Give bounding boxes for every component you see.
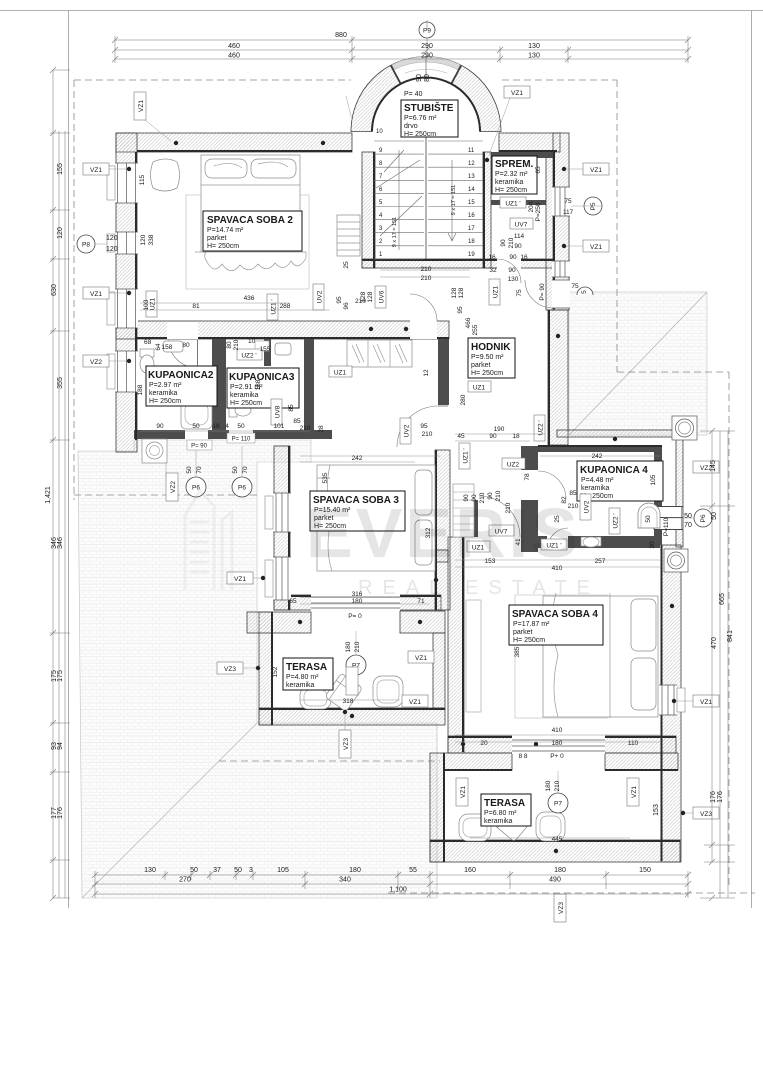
svg-text:9 x 17 = 151: 9 x 17 = 151 [451,185,457,215]
wall left (soba2 + kupaonica2) [116,133,137,452]
node P9 [419,22,435,38]
room label spavaca soba 3 [310,491,405,531]
svg-text:UZ1 ': UZ1 ' [271,299,278,314]
svg-text:P=17.87 m²: P=17.87 m² [513,621,550,628]
wall terasa1 top-left [247,612,311,633]
svg-text:VZ1: VZ1 [409,699,421,706]
svg-text:103: 103 [143,299,150,310]
roof hatch square top-right [569,292,707,435]
inner face corridor wall [137,337,449,339]
door bathroom bottom P=90 [185,429,208,440]
svg-text:VZ2: VZ2 [90,359,102,366]
svg-text:120: 120 [106,246,118,253]
k2 wc [140,349,154,357]
svg-text:HODNIK: HODNIK [471,342,511,353]
svg-text:TERASA: TERASA [286,662,327,673]
wall sprem bottom [491,200,546,205]
svg-text:UZ1: UZ1 [473,385,486,392]
column drain ne [672,416,697,440]
svg-text:UV2: UV2 [317,290,324,303]
svg-text:P= 110: P= 110 [232,437,251,443]
carpet soba4 [515,595,608,718]
inner face soba4 bottom [448,736,676,738]
dashed roof outline [74,80,755,893]
svg-text:P=250: P=250 [535,202,542,221]
inner face terasa walls [259,612,680,862]
wall stair bottom [362,259,553,268]
svg-text:110: 110 [628,740,639,747]
svg-text:1,421: 1,421 [45,486,52,504]
svg-text:P7: P7 [554,801,562,808]
svg-text:80: 80 [226,341,233,349]
svg-text:153: 153 [653,804,660,816]
wall closet hodnik-south [466,500,478,537]
svg-text:parket: parket [513,629,533,636]
inner face k4 top [538,445,662,447]
svg-text:8 8: 8 8 [518,753,527,760]
window k4 right P110 [654,506,683,530]
stair walk line arrow [399,150,456,250]
inner face stair walls [362,152,553,268]
terasa2 lounger [494,803,533,842]
svg-text:150: 150 [639,867,651,874]
svg-text:H= 250cm: H= 250cm [207,243,239,250]
parapet wall ne right [676,437,683,547]
svg-text:45: 45 [457,433,465,440]
inner face soba3 bottom [274,595,441,597]
page left border line [68,11,70,909]
svg-text:490: 490 [549,877,561,884]
svg-text:385: 385 [514,646,521,657]
svg-text:P6: P6 [238,485,246,492]
arch window gaps [391,57,461,84]
svg-text:VZ1: VZ1 [234,576,246,583]
svg-text:460: 460 [228,43,240,50]
svg-text:880: 880 [335,32,347,39]
svg-text:152: 152 [272,666,279,677]
svg-text:VZ1: VZ1 [90,167,102,174]
svg-text:20: 20 [480,740,488,747]
svg-text:210: 210 [421,266,432,273]
svg-text:P=2.97 m²: P=2.97 m² [149,382,182,389]
svg-text:SPAVACA SOBA 2: SPAVACA SOBA 2 [207,215,293,226]
bottom dimension lines [95,875,688,894]
svg-text:keramika: keramika [581,485,610,492]
svg-text:VZ1: VZ1 [631,786,638,798]
door hodnik-soba4 UV7 [479,496,521,538]
svg-text:UZ2 ': UZ2 ' [538,420,545,435]
watermark [185,491,600,599]
svg-text:P=2.32 m²: P=2.32 m² [495,171,528,178]
svg-text:128: 128 [360,291,367,302]
svg-text:90: 90 [156,423,164,430]
terasa1 lounger [325,673,363,712]
nightstand soba2 [151,159,180,191]
wall soba3 bottom [274,595,441,610]
k4 washbasin oval [583,537,599,547]
door uv2 corridor [410,294,437,339]
svg-text:630: 630 [51,284,58,296]
window east w6 P5 [552,187,570,216]
svg-text:190: 190 [494,426,505,433]
svg-text:32: 32 [489,267,497,274]
svg-text:37: 37 [213,867,221,874]
wall soba4 bottom [448,736,676,753]
svg-text:90: 90 [416,74,423,82]
terasa1 chair 1 [300,687,331,709]
window soba3 left w8 [265,493,291,532]
svg-text:UZ1: UZ1 [334,370,347,377]
leader dots [127,141,685,853]
inner face soba2 top [137,150,352,152]
svg-text:REAL ESTATE: REAL ESTATE [358,577,600,599]
k4 sink [581,537,601,546]
wall soba2 top [116,133,352,152]
svg-text:H= 250cm: H= 250cm [471,370,503,377]
svg-text:115: 115 [139,174,146,185]
svg-text:410: 410 [552,727,563,734]
node P6 a [186,477,206,497]
window left w1 VZ1 [107,163,138,203]
svg-text:P= 90: P= 90 [191,444,208,450]
wall terasa2 bottom [430,840,680,862]
svg-text:128: 128 [451,287,458,298]
svg-text:4: 4 [225,423,229,430]
inner face soba4 left [462,537,464,752]
svg-text:50: 50 [684,513,692,520]
svg-text:50: 50 [237,423,245,430]
svg-text:85: 85 [293,418,301,425]
svg-text:70: 70 [684,522,692,529]
svg-text:71: 71 [417,598,425,605]
svg-text:64: 64 [155,343,162,351]
svg-text:UV8: UV8 [275,405,282,418]
svg-text:318: 318 [343,698,354,705]
svg-text:130: 130 [144,867,156,874]
door k4 top UZ2 [520,470,566,500]
svg-text:H= 250cm: H= 250cm [404,131,436,138]
svg-text:210: 210 [354,641,361,652]
stair break lines [376,150,422,236]
svg-text:P= 40: P= 40 [404,91,423,98]
node P8 [77,235,95,253]
svg-text:28: 28 [318,425,325,433]
tick marks top [112,37,691,62]
door sprem UZ1' [497,258,521,283]
svg-text:338: 338 [148,234,155,245]
svg-text:158: 158 [162,344,173,351]
svg-text:210: 210 [421,275,432,282]
top dimension lines [115,40,688,59]
svg-text:VZ1: VZ1 [700,699,712,706]
svg-text:180: 180 [554,867,566,874]
svg-text:keramika: keramika [495,179,524,186]
svg-text:466: 466 [465,317,472,328]
room label hodnik [468,338,515,378]
svg-text:P+ 0: P+ 0 [550,753,564,760]
wall k4 bottom [531,536,660,548]
svg-text:242: 242 [352,455,363,462]
node P7 a [346,655,366,675]
svg-text:H= 250cm: H= 250cm [495,187,527,194]
svg-text:10: 10 [376,129,383,135]
svg-text:94: 94 [57,742,64,750]
svg-text:280: 280 [460,394,467,405]
leader lines [95,96,711,900]
wall terasa1 top-right [400,611,445,633]
svg-text:101: 101 [274,423,285,430]
svg-text:90: 90 [500,239,507,247]
inner face soba3 right [435,450,437,610]
stair flight treads right [428,141,483,246]
svg-text:UZ2: UZ2 [507,462,520,469]
room label terasa 2 [481,794,531,826]
svg-text:18: 18 [468,239,475,245]
terasa1 chair 2 [373,676,403,707]
svg-text:UV2: UV2 [584,500,591,513]
column drain k4 corner [664,549,688,572]
roof diagonal valley line [82,723,257,898]
wall k3 corner stub [304,430,332,439]
svg-text:P8: P8 [82,242,90,249]
k4 wc [638,503,660,528]
svg-text:180: 180 [349,867,361,874]
svg-text:H= 250cm: H= 250cm [149,398,181,405]
svg-text:50: 50 [645,515,652,523]
svg-text:parket: parket [471,362,491,369]
svg-text:65: 65 [535,166,542,174]
svg-text:128: 128 [367,291,374,302]
wall terasa2 left [430,753,444,862]
wall terasa1 left [259,612,272,725]
svg-text:P=4.48 m²: P=4.48 m² [581,477,614,484]
svg-text:P=4.80 m²: P=4.80 m² [286,674,319,681]
svg-text:445: 445 [552,836,563,843]
carpet soba2 [186,195,309,289]
svg-text:VZ1: VZ1 [138,100,145,112]
k2 sink [163,341,183,352]
wall sprem top [491,152,553,158]
svg-text:P6: P6 [700,514,707,522]
room label kupaonica 4 [577,461,663,501]
svg-text:9 x 17 = 151: 9 x 17 = 151 [392,217,398,247]
node P5 [584,197,602,215]
svg-text:78: 78 [524,473,531,481]
k3 sink [275,343,291,355]
svg-text:EVERIS: EVERIS [306,494,581,572]
svg-text:SPREM.: SPREM. [495,159,534,170]
room label sprem [492,156,537,194]
svg-text:436: 436 [244,295,255,302]
svg-text:P=6.80 m²: P=6.80 m² [484,810,517,817]
svg-text:470: 470 [711,637,718,649]
svg-text:UZ2 ': UZ2 ' [241,353,256,360]
window left w3 VZ1 [107,289,138,328]
wall k4 top [538,446,662,452]
svg-text:176: 176 [717,791,724,803]
inner face east hodnik [548,310,550,445]
svg-text:80: 80 [424,74,431,82]
svg-text:5: 5 [581,290,588,294]
window east w7 [552,261,570,277]
svg-text:290: 290 [421,43,433,50]
sliding door soba4-terasa2 [512,735,605,754]
svg-text:parket: parket [207,235,227,242]
svg-text:VZ3: VZ3 [700,811,712,818]
boxed tags [83,86,719,922]
svg-text:18: 18 [512,433,520,440]
wall stub terasa1-soba4 [430,550,448,562]
roof hatch area bottom-left [78,440,437,898]
svg-text:75: 75 [516,289,523,297]
roof diagonal line [569,292,707,435]
svg-text:H= 250cm: H= 250cm [513,637,545,644]
door k4 bottom UZ1' [547,528,568,549]
svg-text:50: 50 [234,867,242,874]
washing machine [142,439,167,463]
svg-text:346: 346 [57,537,64,549]
stair flight treads left [374,141,424,259]
svg-text:204: 204 [528,201,535,212]
svg-text:180: 180 [552,740,563,747]
svg-text:75: 75 [571,283,579,290]
svg-text:90: 90 [514,243,522,250]
svg-text:VZ3: VZ3 [343,738,350,750]
wall partition k2/k3 [212,339,226,436]
inner face top right [499,150,557,152]
svg-text:180: 180 [352,598,363,605]
wall stair left [362,152,375,268]
svg-text:95: 95 [457,306,464,314]
svg-text:P=14.74 m²: P=14.74 m² [207,227,244,234]
svg-text:UZ1: UZ1 [150,297,157,310]
svg-text:16: 16 [468,213,475,219]
svg-text:288: 288 [280,303,291,310]
bed soba4 [543,596,658,717]
window soba3 left w9 [265,557,291,600]
svg-text:255: 255 [472,324,479,335]
blanket edge soba2 [195,252,306,271]
bed soba2 [201,155,300,252]
svg-text:14: 14 [468,187,475,193]
inner face soba3 left [288,446,290,610]
wall k4 right [654,446,662,545]
parapet wall ne top [557,430,683,437]
svg-text:50: 50 [186,466,193,474]
wall east upper [553,133,569,310]
svg-text:UZ1 ': UZ1 ' [463,448,470,463]
svg-text:85: 85 [288,404,295,412]
svg-text:P= 0: P= 0 [348,613,362,620]
svg-text:175: 175 [57,670,64,682]
svg-text:UV6: UV6 [379,290,386,303]
svg-text:145: 145 [710,460,717,472]
svg-text:16: 16 [520,254,528,261]
room label kupaonica3 [227,368,299,408]
svg-text:50: 50 [192,423,200,430]
svg-text:UZ1 ': UZ1 ' [505,201,520,208]
svg-text:90: 90 [508,267,516,274]
svg-text:90: 90 [509,254,517,261]
window left w4 VZ2 [107,351,138,392]
svg-text:105: 105 [277,867,289,874]
svg-text:160: 160 [464,867,476,874]
bed soba3 [317,465,435,571]
svg-text:H= 250cm: H= 250cm [230,400,262,407]
svg-text:535: 535 [322,472,329,483]
wall hodnik west [438,339,449,405]
node P6 b [232,477,252,497]
svg-text:UV7: UV7 [515,222,528,229]
svg-text:70: 70 [196,466,203,474]
svg-text:keramika: keramika [484,818,513,825]
svg-text:665: 665 [719,593,726,605]
svg-text:68: 68 [144,339,152,346]
svg-text:10: 10 [248,338,256,345]
svg-text:130: 130 [528,43,540,50]
svg-text:drvo: drvo [404,123,418,130]
page right border line [751,11,753,909]
door corridor-kupaonica2 [167,322,198,368]
svg-text:P=6.76 m²: P=6.76 m² [404,115,437,122]
svg-text:16: 16 [488,254,496,261]
wall stair right [483,152,491,268]
svg-text:VZ1: VZ1 [590,244,602,251]
svg-text:VZ1: VZ1 [415,655,427,662]
svg-text:VZ1: VZ1 [511,90,523,97]
svg-text:75: 75 [564,198,572,205]
sliding door soba3-terasa1 [311,594,400,611]
room label kupaonica2 [146,366,217,406]
svg-text:TERASA: TERASA [484,798,525,809]
svg-text:176: 176 [710,791,717,803]
svg-text:12: 12 [468,161,475,167]
svg-text:SPAVACA SOBA 4: SPAVACA SOBA 4 [512,609,598,620]
k3 wc [229,403,237,417]
svg-text:180: 180 [545,780,552,791]
svg-text:P=9.50 m²: P=9.50 m² [471,354,504,361]
svg-text:50: 50 [711,512,718,520]
svg-text:UV2: UV2 [404,424,411,437]
wall k3 east [304,339,314,430]
svg-text:1,100: 1,100 [389,887,407,894]
svg-text:355: 355 [57,377,64,389]
closet hodnik south shelves [453,484,474,537]
wall right (soba4 + terasa2) [661,545,681,862]
wall corridor (soba2 bottom / bathrooms top) [116,321,449,339]
wall bathrooms bottom [134,430,311,439]
svg-text:210: 210 [422,431,433,438]
svg-text:242: 242 [592,453,603,460]
wardrobe soba4 left [466,600,481,712]
wall terasa2 top-right [605,753,678,770]
wall terasa1 right [433,633,445,708]
wall sprem east [546,152,554,310]
inner face right wall [661,545,663,861]
wall k4 left [521,446,538,552]
svg-text:96: 96 [343,302,350,310]
svg-text:95: 95 [336,296,343,304]
svg-text:VZ1: VZ1 [590,167,602,174]
node P6 c [694,509,712,527]
door east (hodnik entry) [525,280,570,308]
svg-text:19: 19 [468,252,475,258]
svg-text:270: 270 [179,877,191,884]
svg-text:VZ1: VZ1 [460,786,467,798]
room label spavaca soba 4 [509,605,603,645]
svg-text:841: 841 [727,630,734,642]
svg-text:STUBIŠTE: STUBIŠTE [404,101,454,114]
